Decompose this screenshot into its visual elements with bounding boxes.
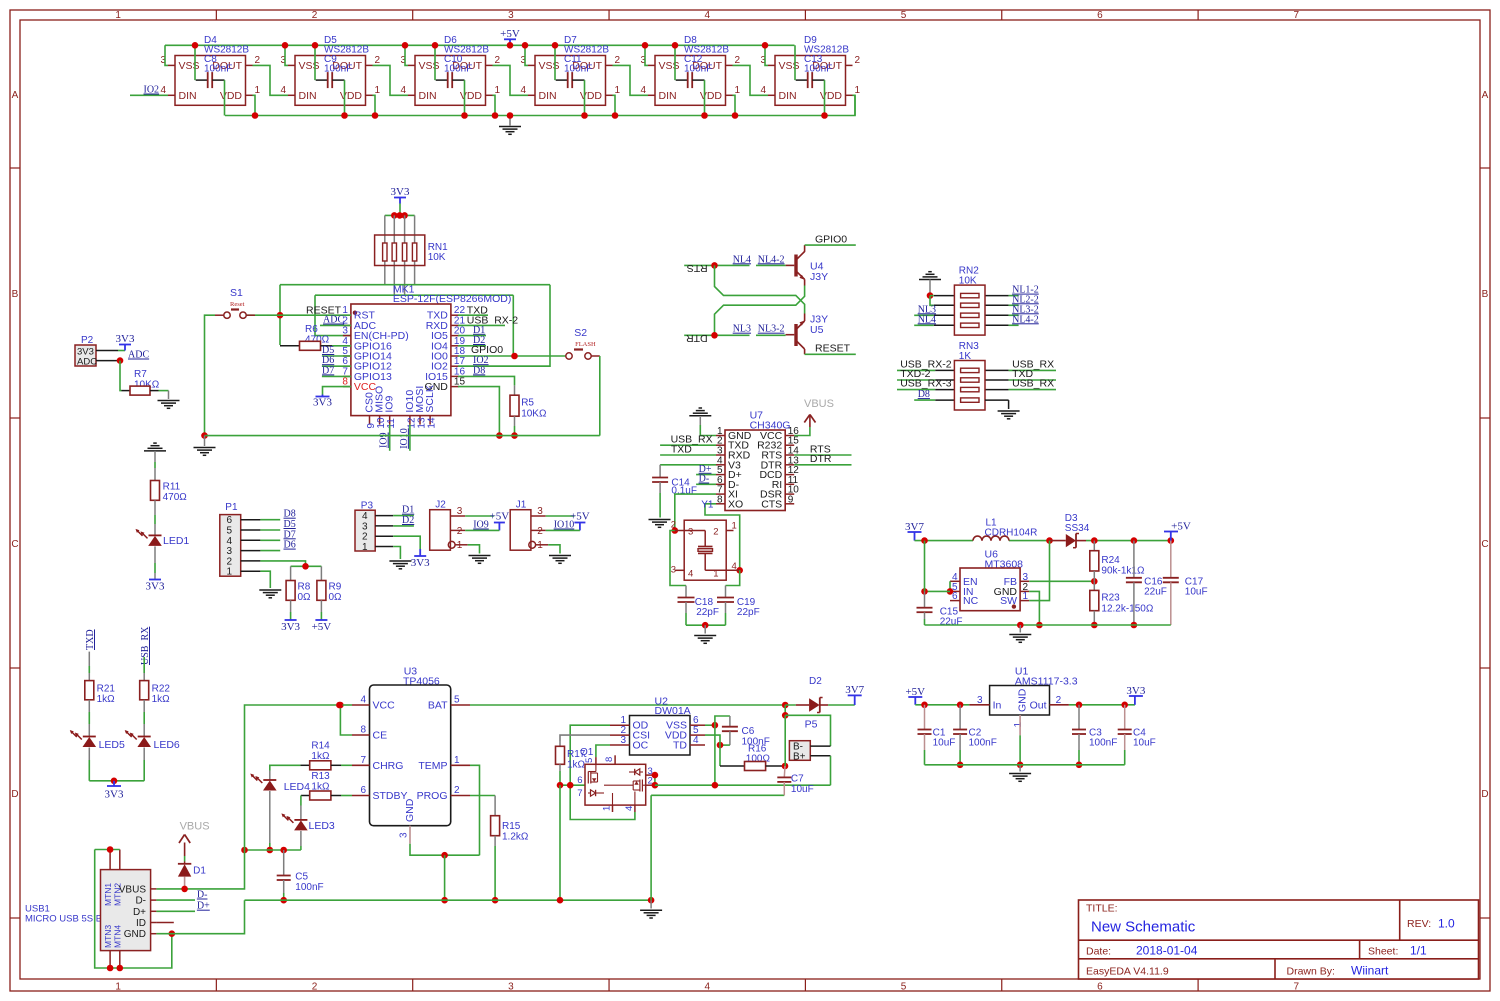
svg-text:VDD: VDD xyxy=(220,90,243,102)
svg-text:DIN: DIN xyxy=(539,90,557,102)
crystal Y1 package xyxy=(671,520,740,581)
power arrow VBUS at USB xyxy=(179,835,190,862)
svg-text:TXD: TXD xyxy=(85,629,96,650)
resistor R23 12.2k-150 xyxy=(1090,581,1154,628)
net label DTR rotated xyxy=(686,332,708,344)
svg-text:R7: R7 xyxy=(134,369,147,380)
svg-text:NL3-2: NL3-2 xyxy=(758,324,785,335)
svg-text:Out: Out xyxy=(1030,699,1047,711)
wire DOUT D7 to DIN next xyxy=(613,65,649,95)
net label NL2-2 xyxy=(1009,294,1039,305)
net label D2 P3-3 xyxy=(393,515,414,526)
net label USB_RX rotated at R22 xyxy=(140,626,151,665)
wire C18 C19 common xyxy=(686,622,726,634)
svg-text:C6: C6 xyxy=(742,726,755,737)
ESP-12F module MK1 xyxy=(342,284,511,429)
wire U1 Out to 3V3 xyxy=(1069,702,1135,709)
capacitor C12 100nF xyxy=(676,54,713,88)
net label NL1-2 xyxy=(1009,285,1039,296)
net label IO2 pin17 xyxy=(458,355,550,366)
WS2812B LED D6 xyxy=(400,35,500,105)
wire P5 B+ down to rail A xyxy=(830,756,832,785)
wire P2 ADC to R7 xyxy=(117,357,124,390)
wire VDD D6 to bottom rail xyxy=(461,95,498,118)
svg-text:Y1: Y1 xyxy=(701,500,714,511)
capacitor C19 22pF xyxy=(717,597,760,625)
svg-text:MTN1: MTN1 xyxy=(103,883,113,906)
svg-text:DTR: DTR xyxy=(810,453,832,465)
svg-text:C: C xyxy=(1481,539,1488,550)
svg-text:2: 2 xyxy=(312,10,318,21)
wire DOUT D5 to DIN next xyxy=(373,65,409,95)
svg-text:EasyEDA V4.11.9: EasyEDA V4.11.9 xyxy=(1086,966,1169,978)
resistor R24 90k-1k1 xyxy=(1090,541,1145,582)
svg-text:1: 1 xyxy=(1023,591,1029,602)
wire VDD D4 to bottom rail xyxy=(252,95,259,118)
svg-text:1: 1 xyxy=(375,85,381,96)
svg-text:3V3: 3V3 xyxy=(391,186,410,198)
svg-text:3V3: 3V3 xyxy=(411,557,430,569)
net label NL3 xyxy=(733,324,751,335)
svg-text:8: 8 xyxy=(717,494,723,505)
capacitor C7 10uF xyxy=(777,766,813,795)
wire U2 OD to Q1 gate2 xyxy=(570,725,635,819)
net label Y1 refdes xyxy=(701,500,714,511)
svg-text:MICRO USB 5S B: MICRO USB 5S B xyxy=(25,914,102,925)
power flag +5V at U1 input xyxy=(905,686,925,705)
wire crossover DTR to U4 emitter xyxy=(715,286,805,336)
svg-text:CTS: CTS xyxy=(761,498,782,510)
wire U1 GND down xyxy=(1017,735,1024,771)
svg-text:J2: J2 xyxy=(435,500,446,511)
svg-text:LED1: LED1 xyxy=(163,535,189,547)
wire cap C12 to rails xyxy=(672,42,705,116)
wire IO9 down from pin11 xyxy=(389,425,391,451)
wire U7 V3 to C14 xyxy=(660,465,716,478)
power flag 3V3 below LED56 xyxy=(105,781,124,801)
svg-text:4: 4 xyxy=(400,85,406,96)
svg-text:B: B xyxy=(12,289,19,300)
power flag 3V7 at D2 xyxy=(845,684,864,705)
svg-text:NL3: NL3 xyxy=(733,324,751,335)
ground rail under ESP xyxy=(205,435,600,437)
svg-text:FLASH: FLASH xyxy=(575,341,596,348)
WS2812B LED D4 xyxy=(160,35,260,105)
svg-text:1/1: 1/1 xyxy=(1410,944,1427,958)
svg-text:4: 4 xyxy=(760,85,766,96)
svg-text:IO9: IO9 xyxy=(473,520,489,531)
diode LED6 xyxy=(125,730,180,781)
diode LED4 xyxy=(250,765,310,853)
svg-text:D+: D+ xyxy=(197,901,210,912)
svg-text:4: 4 xyxy=(704,10,710,21)
svg-text:4: 4 xyxy=(640,85,646,96)
ground at U1 xyxy=(1009,774,1031,782)
power flag 3V3 above RN1 xyxy=(391,186,410,215)
svg-text:D8: D8 xyxy=(918,389,930,400)
svg-text:R9: R9 xyxy=(329,582,342,593)
svg-text:D8: D8 xyxy=(473,365,485,376)
svg-text:2: 2 xyxy=(671,520,676,531)
svg-text:C: C xyxy=(11,539,18,550)
wire U6 GND down xyxy=(1029,591,1043,628)
wire GPIO0 at U4 collector xyxy=(805,233,856,245)
capacitor C3 100nF xyxy=(1072,705,1117,768)
svg-text:R15: R15 xyxy=(502,821,521,832)
svg-text:NL4: NL4 xyxy=(733,254,751,265)
power flag 3V3 at U1 output xyxy=(1126,685,1145,705)
svg-text:R24: R24 xyxy=(1101,555,1120,566)
diode LED1 xyxy=(136,529,190,580)
capacitor C8 100nF xyxy=(196,54,233,88)
svg-text:5: 5 xyxy=(901,982,907,993)
IC U2 DW01A xyxy=(610,696,705,756)
svg-text:3: 3 xyxy=(620,735,626,746)
svg-text:2: 2 xyxy=(255,55,261,66)
wire U2 CSI to R17 xyxy=(560,735,610,746)
capacitor C16 22uF xyxy=(1126,541,1167,629)
inductor L1 CDRH104R xyxy=(973,518,1037,541)
net label D8 RN3 xyxy=(914,389,935,400)
net label NL4-2 xyxy=(758,254,785,265)
capacitor C10 100nF xyxy=(436,54,473,88)
net label USB_RX-2 pin21 xyxy=(458,315,518,327)
resistor R15 1.2k xyxy=(491,816,529,904)
pushbutton S1 Reset xyxy=(215,287,255,318)
svg-text:3: 3 xyxy=(688,527,693,538)
wire boost bottom rail xyxy=(925,622,1171,629)
resistor R8 0 ohm xyxy=(286,566,311,619)
wire cap C13 to rails xyxy=(795,45,825,115)
net label NL4 RN2 xyxy=(914,314,936,325)
power flag 3V3 at P3 xyxy=(411,549,430,569)
svg-text:C5: C5 xyxy=(295,872,308,883)
capacitor C18 22pF xyxy=(678,597,719,625)
svg-text:3V3: 3V3 xyxy=(105,789,124,801)
power flag 3V3 below R8 xyxy=(281,619,300,633)
svg-text:22pF: 22pF xyxy=(737,607,760,618)
svg-text:1: 1 xyxy=(255,85,261,96)
svg-text:10uF: 10uF xyxy=(1185,587,1208,598)
svg-text:3: 3 xyxy=(508,982,514,993)
svg-text:10K: 10K xyxy=(428,252,446,263)
wire VSS D7 xyxy=(522,42,529,65)
net label D7 P1-4 xyxy=(260,529,295,540)
svg-text:R13: R13 xyxy=(311,771,330,782)
svg-text:8: 8 xyxy=(604,757,615,762)
title block xyxy=(1079,900,1479,979)
capacitor C5 100nF xyxy=(277,850,324,904)
net label D5 pin5 xyxy=(322,345,351,356)
svg-text:+5V: +5V xyxy=(312,621,332,633)
svg-text:D2: D2 xyxy=(809,676,822,687)
ground at U7 pin1 xyxy=(689,408,711,416)
svg-text:ADC: ADC xyxy=(77,357,97,368)
svg-text:D1: D1 xyxy=(193,866,206,877)
net label TXD U7 pin3 xyxy=(660,443,716,455)
resistor R13 1k xyxy=(301,771,352,800)
svg-text:IO2: IO2 xyxy=(144,85,160,96)
wire +5V top rail xyxy=(165,44,795,46)
net label D- USB xyxy=(156,890,207,901)
wire USB VBUS to charger xyxy=(156,702,342,893)
svg-text:6: 6 xyxy=(1097,10,1103,21)
svg-text:1: 1 xyxy=(115,10,121,21)
svg-text:VDD: VDD xyxy=(340,90,363,102)
svg-text:5: 5 xyxy=(454,695,460,706)
svg-text:470Ω: 470Ω xyxy=(163,492,188,503)
svg-text:3V3: 3V3 xyxy=(313,397,332,409)
svg-text:XO: XO xyxy=(728,498,743,510)
net label D8 P1-6 xyxy=(260,509,295,520)
svg-text:0Ω: 0Ω xyxy=(329,592,343,603)
net label RTS rotated xyxy=(687,262,708,274)
WS2812B LED D7 xyxy=(520,35,620,105)
svg-text:2: 2 xyxy=(454,785,460,796)
transistor U4 J3Y xyxy=(786,245,828,285)
ground at boost xyxy=(1009,625,1031,642)
power flag +5V below R9 xyxy=(312,619,332,633)
svg-text:DTR: DTR xyxy=(686,332,708,344)
resistor network RN2 10K xyxy=(934,266,1009,336)
svg-text:S1: S1 xyxy=(230,287,243,299)
svg-text:B+: B+ xyxy=(793,751,806,762)
wire crossover RTS to U5 emitter xyxy=(715,265,805,313)
net label NL4-2 RN2 xyxy=(1009,314,1039,325)
svg-text:IO10: IO10 xyxy=(399,428,410,449)
net label TXD RN3 right2 xyxy=(1009,368,1056,380)
net label TXD-2 RN3 and wire xyxy=(897,368,935,380)
svg-text:1kΩ: 1kΩ xyxy=(152,694,171,705)
capacitor C17 10uF xyxy=(1163,541,1208,625)
svg-text:IO10: IO10 xyxy=(554,520,575,531)
net label IO9 rotated xyxy=(379,432,390,448)
svg-text:LED6: LED6 xyxy=(154,739,180,751)
connector P1 xyxy=(220,502,261,578)
svg-text:11: 11 xyxy=(386,418,397,429)
wire RN3 row4 to ground xyxy=(985,400,1020,419)
svg-text:4: 4 xyxy=(624,806,635,811)
svg-text:ID: ID xyxy=(136,918,146,929)
net label USB_RX U7 pin2 xyxy=(660,434,716,446)
svg-text:22pF: 22pF xyxy=(696,607,719,618)
svg-text:P1: P1 xyxy=(225,502,238,513)
net label USB_RX RN3 right1 xyxy=(1009,359,1056,371)
svg-text:REV:: REV: xyxy=(1407,918,1431,930)
svg-text:NL4-2: NL4-2 xyxy=(1012,314,1039,325)
wire P1-2 to R8 R9 xyxy=(260,561,321,570)
svg-text:7: 7 xyxy=(1293,982,1299,993)
net label D5 P1-5 xyxy=(260,519,295,530)
diode LED5 xyxy=(70,730,125,781)
svg-text:Drawn By:: Drawn By: xyxy=(1287,966,1335,978)
ground at C14 xyxy=(649,520,671,528)
svg-text:C7: C7 xyxy=(791,774,804,785)
wire S1 left to ground rail xyxy=(201,315,215,439)
wire D3 to +5V rail xyxy=(1086,537,1174,544)
svg-text:VBUS: VBUS xyxy=(119,884,147,895)
wire battery plus node xyxy=(782,705,831,766)
wire VCC to 3V3 flag xyxy=(323,387,352,395)
net label D7 pin7 xyxy=(322,365,351,376)
wire RST pullup net xyxy=(277,285,550,367)
wire U3 PROG to R15 xyxy=(470,796,495,816)
svg-text:VDD: VDD xyxy=(700,90,723,102)
net label D+ U7 pin5 xyxy=(696,464,716,475)
svg-text:1kΩ: 1kΩ xyxy=(567,760,586,771)
resistor R9 0 ohm xyxy=(317,566,342,619)
svg-text:GPIO0: GPIO0 xyxy=(815,233,847,245)
wire RTS to U4 base xyxy=(684,262,785,269)
svg-text:1: 1 xyxy=(615,85,621,96)
svg-text:7: 7 xyxy=(577,788,582,799)
svg-text:1: 1 xyxy=(1013,722,1024,728)
wire VDD D7 to bottom rail xyxy=(581,95,618,118)
wire VDD D5 to bottom rail xyxy=(341,95,378,118)
wire cap C9 to rails xyxy=(312,42,345,116)
capacitor C4 10uF xyxy=(1118,705,1156,765)
power arrow VBUS at U7 xyxy=(794,415,815,436)
svg-text:USB_RX-3: USB_RX-3 xyxy=(900,378,952,390)
wire cap C11 to rails xyxy=(552,42,585,116)
svg-text:NL4-2: NL4-2 xyxy=(758,254,785,265)
svg-text:In: In xyxy=(993,699,1002,711)
resistor R11 470 ohm xyxy=(151,481,188,536)
wire crystal right to C19 xyxy=(726,570,740,597)
WS2812B LED D8 xyxy=(640,35,740,105)
svg-text:R23: R23 xyxy=(1101,593,1120,604)
svg-text:8: 8 xyxy=(360,725,366,736)
wire cap C8 to rails xyxy=(192,42,225,116)
svg-text:VSS: VSS xyxy=(299,60,320,72)
svg-text:D7: D7 xyxy=(322,365,334,376)
svg-text:100nF: 100nF xyxy=(295,882,323,893)
svg-text:22uF: 22uF xyxy=(940,617,963,628)
wire BAT net xyxy=(470,702,789,709)
svg-text:2: 2 xyxy=(457,526,463,537)
wire IO10 down from pin12 xyxy=(409,425,411,451)
svg-text:VBUS: VBUS xyxy=(804,398,834,410)
wire Q1 right pins to battery minus rail xyxy=(652,772,831,789)
wire P3-2 to 3V3 xyxy=(393,536,420,549)
ground at crystal caps xyxy=(694,636,716,644)
wire VSS D5 xyxy=(282,42,289,65)
power flag +5V LED row xyxy=(500,28,520,49)
svg-text:GPIO0: GPIO0 xyxy=(471,344,503,356)
wire VSS D8 xyxy=(642,42,649,65)
IC U1 AMS1117-3.3 xyxy=(969,666,1078,736)
svg-text:2: 2 xyxy=(855,55,861,66)
wire USB shell ground loop xyxy=(95,846,175,971)
wire crystal left to C18 xyxy=(670,531,686,598)
wire DOUT D8 to DIN next xyxy=(733,65,769,95)
wire U7 XO to crystal xyxy=(705,504,743,574)
net label VBUS at USB xyxy=(180,821,210,833)
power flag 3V3 below LED1 xyxy=(146,580,165,593)
svg-text:3: 3 xyxy=(508,10,514,21)
wire USB GND to rail xyxy=(156,900,244,934)
net label D6 pin6 xyxy=(322,355,351,366)
svg-text:OC: OC xyxy=(633,740,649,752)
resistor R21 1k xyxy=(85,652,116,737)
svg-text:GND: GND xyxy=(404,798,416,822)
svg-text:4: 4 xyxy=(693,735,699,746)
wire DOUT D6 to DIN next xyxy=(493,65,529,95)
svg-text:TITLE:: TITLE: xyxy=(1086,903,1118,915)
wire U6 FB to divider xyxy=(1029,578,1097,585)
svg-text:D+: D+ xyxy=(133,907,146,918)
svg-text:R6: R6 xyxy=(305,324,318,335)
ground at main rail xyxy=(640,900,662,918)
svg-text:7: 7 xyxy=(360,755,366,766)
wire S2 right to ground rail xyxy=(599,356,601,436)
svg-text:P5: P5 xyxy=(805,719,818,731)
pushbutton S2 FLASH xyxy=(566,327,600,359)
ground symbol at S1 xyxy=(194,436,216,456)
svg-text:D6: D6 xyxy=(284,540,296,551)
svg-text:D-: D- xyxy=(197,890,208,901)
net label TXD rotated at R21 xyxy=(85,629,96,650)
svg-text:MTN4: MTN4 xyxy=(113,925,123,948)
diode D1 xyxy=(178,862,206,889)
svg-text:PROG: PROG xyxy=(417,790,448,802)
resistor R14 1k xyxy=(300,741,352,770)
svg-text:VDD: VDD xyxy=(460,90,483,102)
resistor R7 10K xyxy=(122,369,169,395)
svg-text:7: 7 xyxy=(1293,10,1299,21)
svg-text:1: 1 xyxy=(855,85,861,96)
svg-text:Reset: Reset xyxy=(230,301,245,308)
svg-text:RESET: RESET xyxy=(815,343,851,355)
svg-text:12.2k-150Ω: 12.2k-150Ω xyxy=(1101,604,1153,615)
wire U6 SW to rail xyxy=(1029,541,1049,601)
svg-text:2: 2 xyxy=(375,55,381,66)
WS2812B LED D5 xyxy=(280,35,380,105)
capacitor C15 22uF xyxy=(917,607,963,628)
svg-text:3: 3 xyxy=(399,832,410,838)
ground LED row xyxy=(499,112,521,134)
resistor R16 100 ohm xyxy=(720,744,788,771)
net label D- U7 pin6 xyxy=(696,474,716,485)
wire U7 XI to crystal xyxy=(672,494,717,534)
wire U2 VSS to C6 and rail xyxy=(705,716,730,789)
wire cap C10 to rails xyxy=(432,42,465,116)
wire EN pullup net xyxy=(315,295,513,355)
net label ADC at P2 xyxy=(128,350,149,361)
svg-text:A: A xyxy=(12,90,19,101)
svg-text:10uF: 10uF xyxy=(791,784,814,795)
svg-text:TEMP: TEMP xyxy=(418,760,447,772)
svg-text:90k-1k1Ω: 90k-1k1Ω xyxy=(1101,566,1145,577)
net label RESET at RST xyxy=(306,305,342,317)
svg-text:4: 4 xyxy=(520,85,526,96)
capacitor C2 100nF xyxy=(953,705,997,768)
WS2812B LED D9 xyxy=(760,35,860,105)
connector P5 battery xyxy=(789,719,830,763)
connector P2 xyxy=(75,335,118,368)
wire GND pin15 down xyxy=(458,387,503,439)
power flag 3V3 at VCC xyxy=(313,395,332,409)
svg-text:S2: S2 xyxy=(574,327,587,339)
svg-text:1: 1 xyxy=(735,85,741,96)
wire U3 GND TEMP common xyxy=(410,765,480,903)
svg-text:VSS: VSS xyxy=(179,60,200,72)
svg-text:TD: TD xyxy=(673,740,687,752)
svg-text:1: 1 xyxy=(454,755,460,766)
svg-text:6: 6 xyxy=(577,775,582,786)
wire VDD D8 to bottom rail xyxy=(701,95,738,118)
wire DTR to U5 base xyxy=(684,332,785,339)
